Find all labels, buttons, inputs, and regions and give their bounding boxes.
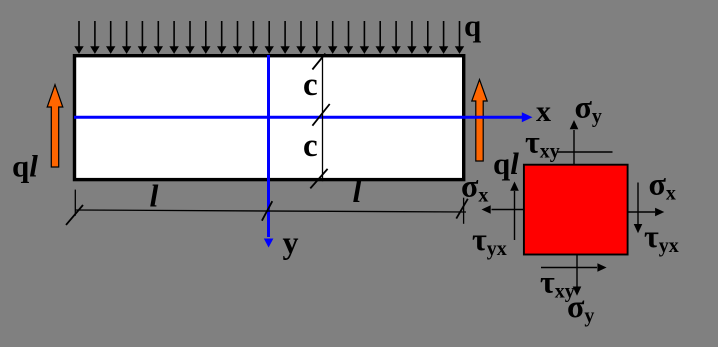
svg-text:q: q <box>464 8 481 43</box>
svg-text:l: l <box>353 173 362 209</box>
svg-text:y: y <box>283 224 299 260</box>
svg-text:ql: ql <box>12 149 38 184</box>
svg-text:l: l <box>150 178 159 214</box>
svg-text:ql: ql <box>493 146 519 181</box>
svg-text:c: c <box>303 67 318 103</box>
svg-text:c: c <box>303 128 318 164</box>
